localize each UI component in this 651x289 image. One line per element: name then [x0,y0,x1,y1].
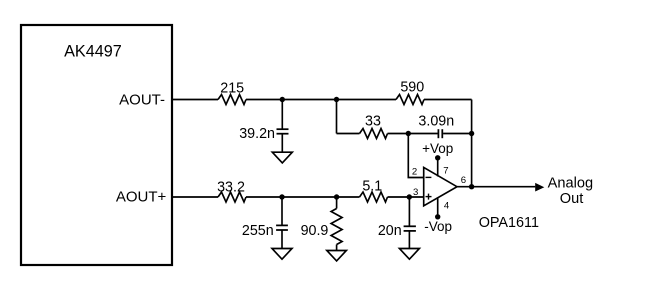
svg-text:AK4497: AK4497 [64,43,122,61]
svg-text:AOUT-: AOUT- [119,92,165,109]
svg-text:33.2: 33.2 [217,179,245,195]
svg-text:Out: Out [560,191,584,207]
svg-text:4: 4 [444,200,450,211]
svg-text:255n: 255n [242,223,274,239]
svg-text:590: 590 [400,80,424,96]
svg-text:39.2n: 39.2n [239,126,275,142]
svg-text:6: 6 [461,175,466,186]
svg-text:3: 3 [413,187,418,198]
svg-text:20n: 20n [378,223,402,239]
svg-text:90.9: 90.9 [301,223,329,239]
svg-text:3.09n: 3.09n [418,113,454,129]
svg-text:Analog: Analog [548,176,593,192]
svg-text:215: 215 [220,81,244,97]
svg-text:33: 33 [365,113,381,129]
svg-text:7: 7 [443,166,448,177]
svg-text:+Vop: +Vop [422,141,453,156]
svg-text:-Vop: -Vop [424,219,452,234]
svg-text:5.1: 5.1 [362,178,382,194]
svg-text:2: 2 [412,166,417,177]
svg-text:AOUT+: AOUT+ [116,188,167,205]
svg-text:OPA1611: OPA1611 [479,215,539,231]
